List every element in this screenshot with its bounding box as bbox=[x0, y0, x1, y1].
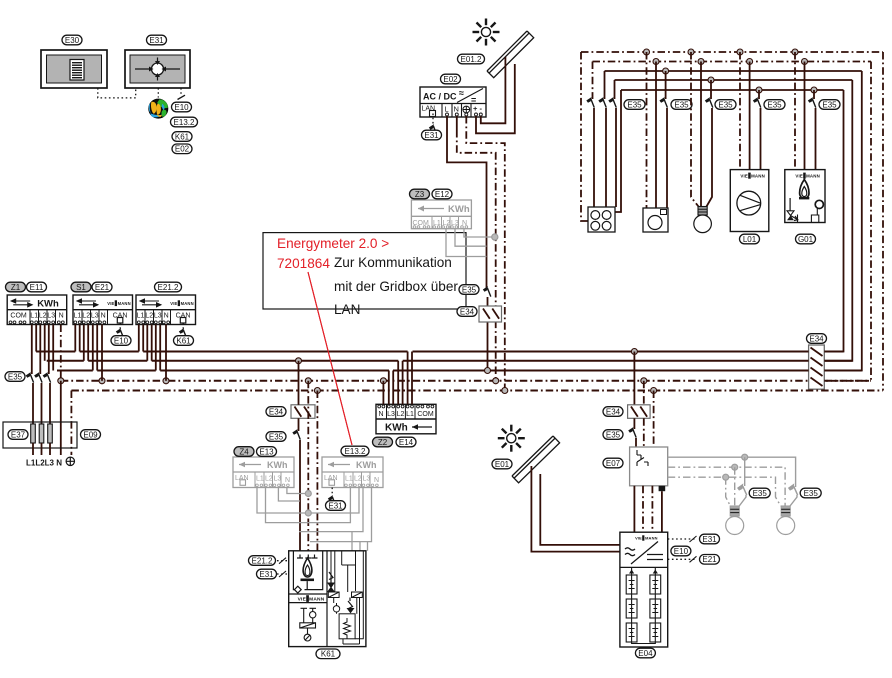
wire K61 PE dashdot bbox=[316, 391, 318, 551]
wire E07-bat N bbox=[642, 486, 644, 532]
wire K61 L above box bbox=[298, 361, 300, 405]
bulb3 PE drop bbox=[691, 52, 699, 207]
wire E21.2 L2 b bbox=[151, 325, 153, 361]
bus L1 segment bbox=[143, 351, 407, 353]
svg-text:E14: E14 bbox=[399, 438, 414, 447]
gray E13.2 L3 link bbox=[299, 488, 363, 532]
fuse 2 bbox=[39, 424, 44, 443]
bus N segment bbox=[61, 380, 809, 382]
svg-text:L2: L2 bbox=[82, 312, 90, 319]
node PE row1 col2 bbox=[644, 49, 650, 55]
annotation callout box bbox=[263, 233, 466, 309]
wire Z1 L3 out bbox=[52, 325, 54, 371]
cooktop wire b lower bbox=[605, 108, 607, 207]
bus L1 segment bbox=[36, 351, 75, 353]
bus L3 segment bbox=[97, 370, 156, 372]
wire L3 below fuse bbox=[49, 443, 51, 455]
svg-text:L2: L2 bbox=[354, 476, 362, 483]
svg-text:MANN: MANN bbox=[309, 597, 325, 603]
svg-text:L3: L3 bbox=[47, 312, 55, 319]
K61 diamond valve bbox=[294, 586, 301, 593]
label E35 (lamp1) bbox=[749, 488, 770, 498]
label E14 bbox=[396, 437, 416, 447]
svg-text:L1: L1 bbox=[345, 476, 353, 483]
node L1 battery tap bbox=[631, 349, 637, 355]
S1 CAN port square bbox=[117, 318, 123, 324]
svg-text:KWh: KWh bbox=[37, 299, 59, 310]
svg-text:L3: L3 bbox=[363, 476, 371, 483]
link bat-E31 bbox=[668, 538, 697, 540]
row2 N dashdot bbox=[593, 61, 872, 63]
breaker box E34 (right riser, hatched) bbox=[809, 345, 825, 389]
svg-text:≈: ≈ bbox=[459, 88, 464, 98]
wire E02 L through switch to bus L3 bbox=[487, 297, 489, 371]
label E30 bbox=[62, 35, 82, 45]
node N battery tap bbox=[641, 378, 647, 384]
wire E21.2 L3 a bbox=[155, 325, 157, 371]
svg-text:E35: E35 bbox=[269, 432, 284, 441]
gray lamp1 PE drop bbox=[726, 477, 731, 506]
svg-text:N: N bbox=[285, 477, 290, 484]
svg-text:LAN: LAN bbox=[334, 302, 360, 317]
wire E21.2 L3 b bbox=[159, 325, 161, 371]
switch E35 cooktop b bbox=[599, 98, 606, 108]
label E10 (CAN) bbox=[111, 336, 131, 346]
battery cell 1-1 bbox=[626, 575, 637, 594]
label E13 bbox=[257, 447, 277, 457]
svg-text:E35: E35 bbox=[753, 489, 768, 498]
load cooktop bbox=[588, 207, 615, 232]
svg-text:N: N bbox=[374, 477, 379, 484]
row4 L2 bbox=[615, 79, 853, 81]
load lamp 2 bbox=[777, 506, 795, 535]
K61 control circuit right section bbox=[328, 551, 363, 644]
wire L2 to fuse bbox=[41, 383, 43, 424]
link E02 LAN down bbox=[432, 114, 434, 125]
wire E21.2 L2 a bbox=[146, 325, 148, 361]
svg-text:E31: E31 bbox=[259, 570, 274, 579]
svg-text:E10: E10 bbox=[114, 336, 129, 345]
svg-text:Z4: Z4 bbox=[239, 447, 249, 456]
L01 L lower bbox=[760, 108, 762, 170]
switch E35 G01 bbox=[808, 98, 815, 108]
wire battery L box-switch bbox=[633, 418, 635, 429]
svg-text:KWh: KWh bbox=[356, 460, 377, 470]
internet globe bbox=[149, 99, 168, 118]
node N E02 tap bbox=[493, 378, 499, 384]
svg-text:E35: E35 bbox=[462, 285, 477, 294]
node N row2 col3 bbox=[698, 59, 704, 65]
wire Z2 L1 a up bbox=[407, 352, 409, 405]
svg-text:L1: L1 bbox=[74, 312, 82, 319]
label E35 (washer) bbox=[671, 100, 692, 110]
label E01 bbox=[492, 459, 512, 469]
right edge N vertical dashdot bbox=[824, 62, 871, 381]
node L3 E02 tap bbox=[485, 368, 491, 374]
cooktop wire c upper bbox=[614, 80, 616, 99]
row5 L1 bbox=[621, 89, 844, 91]
gray lamp1 L drop2 bbox=[739, 495, 746, 506]
wire E02 N down bbox=[456, 116, 458, 130]
L01 L upper bbox=[758, 90, 760, 99]
label E35 (L01) bbox=[764, 100, 785, 110]
svg-text:L1L2L3 N: L1L2L3 N bbox=[26, 459, 62, 468]
right edge L1 vertical bbox=[824, 90, 843, 352]
bus L2 segment bbox=[152, 360, 299, 362]
inverter E02 box bbox=[420, 87, 486, 117]
wire S1 L3 b bbox=[96, 325, 98, 371]
bus N segment right bbox=[824, 380, 871, 382]
label L01 bbox=[740, 234, 760, 244]
earth symbol bbox=[66, 457, 74, 465]
label E35 (main switches) bbox=[5, 372, 25, 382]
wire Z2 L3 a up bbox=[388, 371, 390, 405]
svg-text:L2: L2 bbox=[265, 476, 273, 483]
svg-text:L3: L3 bbox=[91, 312, 99, 319]
svg-text:E09: E09 bbox=[83, 430, 98, 439]
svg-text:E13.2: E13.2 bbox=[174, 118, 195, 127]
node PE row1 col5 bbox=[792, 49, 798, 55]
svg-text:E21: E21 bbox=[95, 283, 110, 292]
sun (top) bbox=[473, 19, 500, 46]
PV panel E01.2 bbox=[487, 31, 534, 78]
svg-text:VIE: VIE bbox=[635, 536, 642, 541]
label E13.2 (top) bbox=[171, 117, 198, 127]
wire E21.2 L1 a bbox=[138, 325, 140, 352]
svg-text:E34: E34 bbox=[460, 307, 475, 316]
svg-text:E10: E10 bbox=[674, 547, 689, 556]
label E31 (E13.2 LAN) bbox=[326, 501, 346, 511]
svg-text:Z3: Z3 bbox=[415, 190, 425, 199]
gray Z4 L2 link bbox=[266, 488, 351, 523]
wire Z1 N bbox=[60, 325, 62, 381]
label E35 (cooktop) bbox=[624, 100, 645, 110]
inverter symbol bbox=[625, 542, 663, 565]
bus L3 segment bbox=[824, 370, 862, 372]
svg-text:MANN: MANN bbox=[645, 536, 658, 541]
label E34 (battery feed) bbox=[603, 407, 623, 417]
tick bat-E21 bbox=[690, 556, 697, 562]
svg-text:E13.2: E13.2 bbox=[345, 447, 366, 456]
svg-text:KWh: KWh bbox=[448, 204, 470, 215]
wire Z2 N up bbox=[382, 381, 384, 405]
battery cell 1-2 bbox=[626, 599, 637, 618]
G01 N drop bbox=[804, 62, 806, 170]
svg-text:Z1: Z1 bbox=[11, 283, 21, 292]
svg-text:N: N bbox=[164, 312, 169, 319]
label E35 (bulb3) bbox=[715, 100, 736, 110]
bus L3 segment bbox=[160, 370, 389, 372]
switch E35 L1 feed bbox=[26, 373, 33, 383]
gray stub K61 a bbox=[351, 532, 353, 551]
svg-text:L2: L2 bbox=[397, 411, 405, 418]
link S1 CAN bbox=[119, 323, 121, 329]
link E31-K61 bbox=[277, 573, 289, 575]
svg-text:E21.2: E21.2 bbox=[158, 283, 179, 292]
svg-text:E02: E02 bbox=[443, 75, 458, 84]
label E02 (top) bbox=[172, 144, 192, 154]
wire Z2 L3 b up bbox=[392, 371, 394, 405]
row1 PE dashdot bbox=[581, 51, 883, 53]
svg-text:+ -: + - bbox=[473, 104, 482, 113]
svg-text:E11: E11 bbox=[30, 283, 44, 292]
bus L1 segment bbox=[634, 351, 808, 353]
node N Z2 tap bbox=[380, 378, 386, 384]
svg-text:E37: E37 bbox=[11, 430, 26, 439]
label E13.2 (meter) bbox=[341, 446, 369, 456]
right edge L2 vertical bbox=[824, 80, 852, 361]
wire N to bottom bbox=[60, 381, 62, 455]
G01 PE drop bbox=[794, 52, 796, 170]
bus L1 segment bbox=[413, 351, 635, 353]
node N row2 col2 bbox=[653, 59, 659, 65]
load washing machine bbox=[643, 208, 668, 232]
row3 L3 bbox=[605, 70, 862, 72]
label E12 bbox=[432, 189, 452, 199]
wire E02 N dashdot bbox=[457, 130, 496, 381]
load lamp 1 bbox=[726, 506, 744, 535]
node PE row1 col3 bbox=[688, 49, 694, 55]
node L1 row5 col4 bbox=[756, 87, 762, 93]
svg-text:L3: L3 bbox=[154, 312, 162, 319]
svg-text:N: N bbox=[101, 312, 106, 319]
bus PE segment bbox=[71, 390, 883, 392]
wire E07-bat L bbox=[633, 486, 635, 532]
wire PV minus bbox=[481, 57, 506, 123]
wire S1 L1 a bbox=[74, 325, 76, 352]
link E30-E31 bbox=[98, 88, 136, 98]
wire Z2 L2 a up bbox=[397, 361, 399, 405]
label E34 (E02 feed) bbox=[457, 307, 477, 317]
sun (bottom) bbox=[498, 425, 525, 452]
wire Z1 L1 out bbox=[35, 325, 37, 352]
tick E31-K61 bbox=[279, 571, 286, 577]
E07 relay symbol bbox=[637, 450, 648, 466]
L01 PE drop bbox=[739, 52, 741, 170]
cooktop wire a upper bbox=[592, 62, 594, 100]
fuse 1 bbox=[31, 424, 36, 443]
label E07 bbox=[603, 458, 623, 468]
svg-text:L1: L1 bbox=[406, 411, 414, 418]
battery cell 2-1 bbox=[650, 575, 661, 594]
switch E35 bulb3 bbox=[705, 98, 712, 108]
svg-text:MANN: MANN bbox=[118, 301, 131, 306]
wire battery PE col bbox=[653, 391, 655, 448]
E07 disconnect square bbox=[659, 486, 666, 491]
node N E21.2 bbox=[163, 378, 169, 384]
gray Z4 L3 link bbox=[278, 488, 300, 502]
meter S1/E21 box bbox=[73, 295, 133, 325]
svg-text:E35: E35 bbox=[606, 430, 621, 439]
meter Z2/E14 bbox=[376, 404, 436, 434]
wire L2 below fuse bbox=[41, 443, 43, 455]
switch glyph to E31 label bbox=[429, 125, 436, 135]
link E31-internet bbox=[157, 88, 159, 98]
gray E13.2 N link bbox=[310, 488, 372, 542]
node N S1 bbox=[99, 378, 105, 384]
wire K61 L switch to box bbox=[299, 440, 301, 551]
bus L3 segment bbox=[488, 370, 809, 372]
label E01.2 bbox=[458, 54, 485, 64]
svg-text:VIE: VIE bbox=[795, 174, 803, 179]
K61 wire end terminals bbox=[297, 555, 318, 559]
L01 N drop bbox=[749, 62, 751, 170]
switch E35 lamp2 bbox=[789, 485, 798, 496]
wire E21.2 L1 b bbox=[142, 325, 144, 352]
gray lamp N line bbox=[668, 467, 785, 506]
bus L2 segment bbox=[47, 360, 84, 362]
battery cell 1-3 bbox=[626, 623, 637, 642]
bus L2 segment bbox=[403, 360, 809, 362]
node N Z1 bbox=[58, 378, 64, 384]
switch E35 K61 feed bbox=[293, 430, 300, 440]
switch E35 washer bbox=[660, 98, 667, 108]
node L3 row3 col2 bbox=[663, 68, 669, 74]
svg-text:L1: L1 bbox=[137, 312, 145, 319]
svg-text:E35: E35 bbox=[767, 100, 782, 109]
label E21.2 (K61) bbox=[249, 556, 276, 566]
meter E21.2 box bbox=[136, 295, 196, 325]
label E34 (K61 feed) bbox=[266, 407, 286, 417]
wire K61 N dashdot bbox=[307, 381, 309, 551]
svg-text:E02: E02 bbox=[175, 145, 190, 154]
wire S1 L2 a bbox=[83, 325, 85, 361]
svg-text:MANN: MANN bbox=[751, 174, 765, 179]
label K61 (boiler) bbox=[316, 649, 340, 659]
wire E02 PE dashdot bbox=[466, 116, 505, 391]
svg-text:E04: E04 bbox=[638, 649, 653, 658]
gray node on K61 N bbox=[305, 491, 311, 497]
node N row2 col4 bbox=[747, 59, 753, 65]
svg-text:E31: E31 bbox=[149, 36, 164, 45]
svg-text:E35: E35 bbox=[674, 100, 689, 109]
wire S1 L1 b bbox=[79, 325, 81, 352]
bus L2 segment bbox=[824, 360, 852, 362]
svg-text:AC / DC: AC / DC bbox=[423, 92, 457, 102]
svg-text:VIE: VIE bbox=[107, 301, 114, 306]
wire Z2 L1 b up bbox=[411, 352, 413, 405]
svg-text:MANN: MANN bbox=[806, 174, 820, 179]
gray stub K61 b bbox=[359, 542, 361, 551]
bus L3 segment bbox=[57, 370, 93, 372]
label E09 bbox=[81, 430, 101, 440]
battery system E04 outline bbox=[620, 532, 668, 647]
node N K61 tap bbox=[305, 378, 311, 384]
svg-text:E13: E13 bbox=[259, 447, 274, 456]
svg-text:L2: L2 bbox=[145, 312, 153, 319]
bus L1 segment bbox=[824, 351, 843, 353]
label E35 (lamp2) bbox=[800, 488, 821, 498]
svg-text:G01: G01 bbox=[798, 235, 814, 244]
svg-text:Z2: Z2 bbox=[378, 438, 388, 447]
gray lamp1 L drop bbox=[744, 457, 746, 486]
PV panel E01 bbox=[512, 436, 560, 483]
wire E02 L down bbox=[447, 116, 487, 288]
K61 burner chamber bbox=[293, 551, 322, 590]
K61 burner bar bbox=[301, 579, 315, 582]
bus L2 segment bbox=[299, 360, 399, 362]
svg-text:VIE: VIE bbox=[740, 174, 748, 179]
wire E07-bat PE bbox=[651, 486, 653, 532]
wire L1 below fuse bbox=[32, 443, 34, 455]
svg-text:E21: E21 bbox=[702, 555, 717, 564]
svg-text:E35: E35 bbox=[822, 100, 837, 109]
wire Z2 L2 b up bbox=[402, 361, 404, 405]
switch E35 L2 feed bbox=[35, 373, 42, 383]
label E35 (E02 feed) bbox=[459, 285, 479, 295]
label E04 bbox=[635, 648, 655, 658]
washer N drop bbox=[655, 62, 657, 209]
gray wire Z3 L3 bbox=[455, 229, 487, 247]
svg-text:E31: E31 bbox=[702, 535, 717, 544]
gray lamp1 N drop bbox=[734, 467, 736, 506]
meter Z1 terminal circles bbox=[9, 321, 64, 324]
transfer switch E07 bbox=[630, 447, 668, 486]
meter Z3/E12 (gray) bbox=[411, 200, 471, 229]
label E31 (battery) bbox=[700, 534, 720, 544]
E21.2 CAN port square bbox=[180, 318, 186, 324]
wire Z1 L3 in bbox=[48, 325, 50, 375]
node PE E02 tap bbox=[502, 388, 508, 394]
wire K61 L box to switch bbox=[298, 418, 300, 431]
switch glyph CAN-E10 bbox=[116, 329, 123, 339]
display unit E30 bbox=[41, 50, 107, 88]
battery cell 2-2 bbox=[650, 599, 661, 618]
svg-text:E35: E35 bbox=[8, 372, 23, 381]
breaker box E34 (K61 feed) bbox=[291, 405, 315, 419]
svg-text:Zur Kommunikation: Zur Kommunikation bbox=[334, 255, 452, 270]
node N row2 col5 bbox=[802, 59, 808, 65]
svg-text:E07: E07 bbox=[606, 459, 621, 468]
svg-text:VIE: VIE bbox=[170, 301, 177, 306]
G01 L upper bbox=[813, 90, 815, 99]
right edge PE vertical dashdot bbox=[882, 52, 884, 391]
bus L2 segment bbox=[88, 360, 147, 362]
breaker box E34 (E02 feed) bbox=[479, 306, 502, 322]
svg-text:KWh: KWh bbox=[267, 460, 288, 470]
gray Z4 L1 long link bbox=[257, 488, 359, 514]
label E21.2 bbox=[155, 282, 182, 292]
node PE row1 col4 bbox=[737, 49, 743, 55]
wire S1 L3 a bbox=[92, 325, 94, 371]
svg-text:E31: E31 bbox=[328, 501, 343, 510]
svg-text:COM: COM bbox=[10, 312, 27, 319]
svg-text:E34: E34 bbox=[809, 334, 824, 343]
svg-text:MANN: MANN bbox=[181, 301, 194, 306]
svg-text:COM: COM bbox=[417, 411, 434, 418]
label E31 (K61) bbox=[257, 569, 277, 579]
tick E21.2-K61 bbox=[279, 558, 286, 564]
svg-text:K61: K61 bbox=[175, 132, 190, 141]
wire PV plus bbox=[476, 64, 515, 133]
wire E21.2 N bbox=[165, 325, 167, 381]
link E31-E10 bbox=[180, 88, 182, 94]
svg-text:N: N bbox=[59, 312, 64, 319]
label E31 bbox=[147, 35, 167, 45]
wire S1 N bbox=[101, 325, 103, 381]
gray wire Z3 N to node bbox=[464, 229, 495, 237]
washer L lower bbox=[666, 108, 668, 208]
boiler unit K61 outline bbox=[289, 551, 366, 647]
svg-text:E01: E01 bbox=[495, 460, 510, 469]
battery inverter section bbox=[620, 566, 668, 568]
switch link to E10 bbox=[178, 95, 186, 99]
label E37 bbox=[8, 430, 28, 440]
gray Z4 N to node bbox=[287, 488, 308, 494]
label E11 bbox=[27, 282, 47, 292]
label Z1 bbox=[6, 282, 26, 292]
svg-text:7201864: 7201864 bbox=[277, 256, 330, 271]
